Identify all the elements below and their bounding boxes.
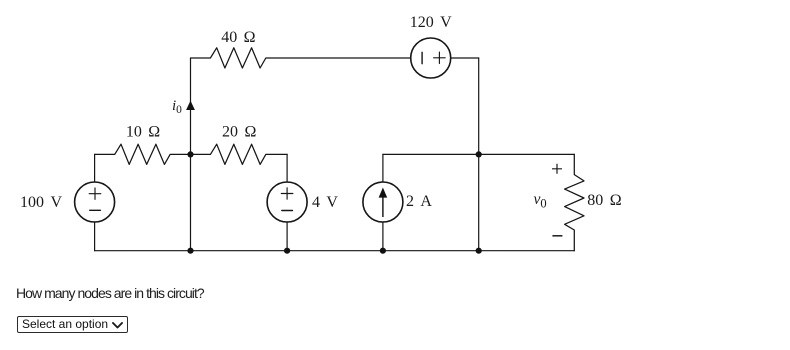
svg-text:4 V: 4 V bbox=[312, 194, 338, 211]
wire left rail bbox=[94, 154, 96, 182]
svg-text:v0: v0 bbox=[534, 191, 547, 210]
wire left rail bottom bbox=[94, 222, 96, 251]
wire right rail bbox=[478, 58, 480, 251]
svg-text:100 V: 100 V bbox=[20, 194, 62, 211]
node dot right mid bbox=[476, 151, 482, 157]
resistor 10Ω bbox=[95, 144, 191, 164]
voltage source 4V circle bbox=[267, 182, 307, 222]
current source 2A circle bbox=[363, 182, 403, 222]
svg-text:80 Ω: 80 Ω bbox=[587, 192, 621, 209]
arrowhead i0 bbox=[186, 101, 195, 110]
wire middle right horizontal bbox=[383, 153, 574, 155]
minus sign 4V bbox=[282, 210, 293, 212]
svg-text:40 Ω: 40 Ω bbox=[221, 29, 255, 46]
select dropdown bbox=[17, 316, 128, 333]
wire 20Ω to 4V source bbox=[286, 154, 288, 182]
current source 2A arrow bbox=[379, 188, 388, 218]
plus sign 4V bbox=[281, 188, 293, 199]
wire node column vertical bbox=[190, 58, 192, 251]
node dot bottom 2 bbox=[284, 248, 290, 254]
label plus 80Ω bbox=[552, 164, 562, 174]
node dot bottom 1 bbox=[187, 248, 193, 254]
plus sign 120V bbox=[434, 52, 446, 63]
node dot bottom 4 bbox=[476, 248, 482, 254]
resistor 80Ω bbox=[565, 154, 584, 250]
wire 2A source bottom bbox=[382, 222, 384, 251]
wire 2A source top bbox=[382, 154, 384, 182]
voltage source 100V circle bbox=[75, 182, 115, 222]
node dot bottom 3 bbox=[380, 248, 386, 254]
svg-text:20 Ω: 20 Ω bbox=[222, 123, 256, 140]
wire 120V source to right rail bbox=[451, 57, 479, 59]
node dot middle bbox=[187, 151, 193, 157]
minus bar 120V bbox=[421, 52, 423, 63]
minus sign 100V bbox=[90, 209, 101, 211]
question text bbox=[16, 286, 204, 300]
voltage source 120V circle bbox=[411, 38, 451, 78]
wire 4V source to bottom bbox=[286, 222, 288, 251]
svg-text:i0: i0 bbox=[172, 98, 182, 116]
resistor 20Ω bbox=[191, 144, 288, 164]
svg-text:2 A: 2 A bbox=[406, 193, 432, 210]
wire bottom rail bbox=[95, 250, 575, 252]
svg-text:120 V: 120 V bbox=[410, 14, 452, 31]
label minus 80Ω bbox=[552, 235, 562, 237]
resistor 40Ω bbox=[191, 48, 411, 68]
plus sign 100V bbox=[89, 188, 101, 199]
svg-text:10 Ω: 10 Ω bbox=[126, 123, 160, 140]
